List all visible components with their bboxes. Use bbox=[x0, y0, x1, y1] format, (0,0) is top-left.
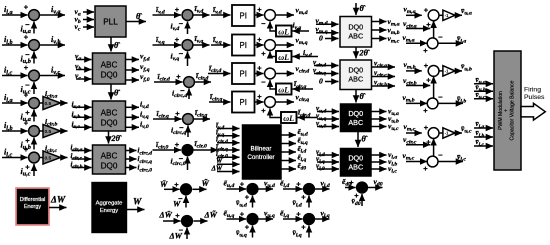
output v_l,a bbox=[371, 150, 397, 161]
svg-text:+: + bbox=[24, 32, 29, 41]
wires and labels around sum row cir,c bbox=[2, 145, 43, 178]
Aggregate Energy block bbox=[92, 183, 127, 233]
svg-text:0: 0 bbox=[319, 77, 323, 86]
svg-text:−: − bbox=[25, 50, 30, 59]
svg-text:-1: -1 bbox=[445, 69, 449, 74]
gain block 0.5 (cir,c) bbox=[43, 151, 61, 164]
PI block 1 bbox=[232, 5, 255, 26]
svg-text:W: W bbox=[173, 200, 181, 209]
svg-text:+: + bbox=[25, 108, 30, 117]
svg-text:DQ0: DQ0 bbox=[101, 119, 118, 128]
summing junction i_l,b + i_u,b bbox=[29, 126, 40, 137]
phase c: vertical split wire bbox=[433, 138, 435, 156]
input W̃ to Bilinear Controller bbox=[216, 157, 240, 165]
svg-text:+: + bbox=[426, 20, 431, 29]
DQ0-ABC block 1 (v_m) bbox=[340, 17, 372, 48]
phase b: lower output v-bar_l bbox=[438, 94, 466, 105]
svg-text:+: + bbox=[245, 222, 250, 231]
PI block 2 bbox=[232, 35, 255, 56]
error summing junction i_v,d error bbox=[182, 10, 193, 21]
PWM Modulation + Capacitor Voltage Balance block bbox=[494, 51, 521, 170]
output ẽ_l,q from Bilinear Controller bbox=[281, 153, 307, 163]
svg-text:Controller: Controller bbox=[247, 154, 274, 161]
combination sum v_l,q bbox=[304, 214, 315, 225]
Bilinear Controller block bbox=[243, 125, 282, 179]
phase a: v_m input to lower sum bbox=[403, 33, 428, 44]
wires and output label row3 cir d-axis bbox=[255, 64, 310, 87]
output v_u,b bbox=[371, 114, 399, 125]
input ΔW̃ to Bilinear Controller bbox=[211, 164, 240, 172]
summing junction after PI (row1 d-axis) bbox=[265, 10, 276, 21]
svg-text:+: + bbox=[24, 145, 29, 154]
phase a: upper summing junction bbox=[428, 10, 439, 21]
input 0 to DQ0-ABC 2 bbox=[319, 77, 339, 86]
svg-text:+: + bbox=[423, 106, 428, 115]
svg-text:−: − bbox=[438, 33, 443, 42]
svg-text:+: + bbox=[24, 63, 29, 72]
svg-text:PI: PI bbox=[240, 41, 247, 50]
wires and labels around Delta-W error sum bbox=[159, 210, 218, 240]
svg-text:+: + bbox=[301, 192, 306, 201]
svg-text:−: − bbox=[261, 78, 266, 87]
output v_f,0 bbox=[126, 72, 150, 83]
PWM input arrow v_l,b bbox=[474, 129, 493, 139]
svg-text:+: + bbox=[257, 64, 262, 73]
Delta-W output of Differential Energy bbox=[49, 196, 67, 208]
svg-text:+: + bbox=[261, 106, 266, 115]
output v_f,q bbox=[126, 62, 150, 73]
PLL input v_b bbox=[75, 14, 95, 25]
svg-text:ABC: ABC bbox=[101, 60, 118, 69]
PLL block bbox=[95, 6, 126, 37]
PWM input arrow v_u,c bbox=[474, 91, 493, 101]
svg-text:W̄: W̄ bbox=[160, 180, 168, 189]
input ĩ_v,q to Bilinear Controller bbox=[216, 129, 240, 139]
svg-text:+: + bbox=[424, 5, 429, 14]
phase b: v_m input to lower sum bbox=[403, 93, 428, 104]
svg-text:+: + bbox=[296, 180, 301, 189]
input v_l,0 bbox=[316, 162, 339, 172]
input i_cir,c to ABC-DQ0 3 bbox=[71, 152, 92, 162]
phase b: inverting gain triangle bbox=[439, 66, 455, 76]
svg-text:ABC: ABC bbox=[348, 163, 363, 172]
input to omega-L (row2 q-axis) bbox=[293, 48, 319, 59]
wires and labels around v_d0 bbox=[342, 177, 383, 207]
phase b: vertical split wire bbox=[433, 76, 435, 98]
svg-text:-1: -1 bbox=[445, 13, 449, 18]
wires and labels around i_cir,0 error bbox=[153, 139, 219, 170]
svg-text:+: + bbox=[257, 92, 262, 101]
svg-text:Aggregate: Aggregate bbox=[96, 201, 123, 207]
wires and labels around sum i_v,b bbox=[2, 32, 65, 65]
svg-text:PI: PI bbox=[240, 98, 247, 107]
svg-text:+: + bbox=[175, 35, 180, 44]
gain block 0.5 (cir,b) bbox=[43, 124, 61, 137]
ABC-DQ0 block 3 (circulating currents) bbox=[93, 145, 126, 174]
wires and labels around sum i_v,a bbox=[2, 2, 65, 35]
theta-hat into DQ0-ABC 1 bbox=[356, 3, 366, 15]
svg-text:ΔW: ΔW bbox=[169, 232, 183, 241]
PLL output theta-hat right bbox=[126, 12, 146, 22]
svg-text:+: + bbox=[349, 178, 354, 187]
input i_v,b to ABC-DQ0 2 bbox=[72, 109, 92, 120]
phase a: lower output v-bar_l bbox=[438, 34, 466, 45]
phase c: v_m input to lower sum bbox=[403, 151, 428, 162]
wires and labels around v_u,q bbox=[224, 209, 275, 239]
wires and output label row4 cir q-axis bbox=[255, 92, 310, 115]
input v_c to ABC-DQ0 1 bbox=[75, 71, 92, 82]
input v_u,d bbox=[316, 105, 339, 115]
phase c: upper summing junction bbox=[428, 128, 439, 139]
output v_u,c bbox=[371, 122, 399, 133]
error summing junction i_cir,q error bbox=[183, 114, 194, 125]
input v_cir,q to DQ0-ABC 2 bbox=[313, 67, 339, 77]
black DQ0-ABC block 2 (lower arm) bbox=[341, 149, 372, 177]
svg-text:Capacitor Voltage Balance: Capacitor Voltage Balance bbox=[509, 80, 515, 140]
phase a: upper output v-bar_u bbox=[455, 6, 472, 17]
Differential Energy block bbox=[16, 188, 49, 225]
svg-text:+: + bbox=[24, 90, 29, 99]
phase b: v_cir input bbox=[403, 76, 430, 87]
output v_cir,c bbox=[372, 69, 396, 79]
svg-text:+: + bbox=[257, 35, 262, 44]
gain block 0.5 (cir,a) bbox=[43, 96, 61, 109]
svg-text:+: + bbox=[25, 136, 30, 145]
error summing junction i_cir,0 error bbox=[182, 145, 193, 156]
Delta-W error summing junction bbox=[182, 216, 193, 227]
svg-text:+: + bbox=[25, 163, 30, 172]
combination sum v_d0 bbox=[357, 182, 368, 193]
svg-text:−: − bbox=[438, 151, 443, 160]
output arrow i_cir,c bbox=[45, 143, 68, 157]
svg-text:ABC: ABC bbox=[348, 32, 363, 41]
svg-text:+: + bbox=[24, 2, 29, 11]
svg-text:−: − bbox=[179, 49, 184, 58]
input to omega-L (row4 cir q-axis) bbox=[298, 108, 318, 119]
svg-text:DQ0: DQ0 bbox=[101, 71, 118, 80]
svg-text:+: + bbox=[354, 191, 359, 200]
wires and labels around i_v,d error bbox=[153, 4, 210, 34]
svg-text:+: + bbox=[261, 49, 266, 58]
wires and labels around sum i_v,c bbox=[2, 63, 65, 96]
input i_v,c to ABC-DQ0 2 bbox=[72, 119, 92, 130]
output i_v,d bbox=[126, 100, 149, 111]
svg-text:Energy: Energy bbox=[24, 204, 41, 210]
output arrow i_cir,b bbox=[45, 117, 68, 131]
summing junction i_l,c + i_u,c bbox=[29, 152, 40, 163]
output ẽ_u,d from Bilinear Controller bbox=[281, 128, 308, 138]
combination sum v_l,d bbox=[304, 184, 315, 195]
svg-text:+: + bbox=[175, 140, 180, 149]
summing junction i_l,b - i_u,b = i_v,b bbox=[29, 40, 40, 51]
input ĩ_cir,0 to Bilinear Controller bbox=[216, 150, 240, 160]
PWM input arrow v_u,b bbox=[474, 84, 493, 94]
ABC-DQ0 block 1 (voltages) bbox=[93, 53, 126, 84]
input to omega-L (row1 d-axis) bbox=[293, 21, 310, 32]
output v_f,d bbox=[126, 52, 150, 63]
output v_cir,a bbox=[372, 59, 396, 69]
input 0 to DQ0-ABC 1 bbox=[319, 34, 339, 43]
PLL output theta-hat down bbox=[111, 37, 120, 52]
input ĩ_cir,d to Bilinear Controller bbox=[216, 136, 240, 146]
svg-text:ωL: ωL bbox=[278, 85, 289, 94]
svg-text:−: − bbox=[438, 93, 443, 102]
svg-text:ΔW: ΔW bbox=[50, 196, 66, 206]
error summing junction i_v,q error bbox=[182, 40, 193, 51]
output v_u,a bbox=[371, 107, 399, 118]
svg-text:+: + bbox=[245, 192, 250, 201]
summing junction after PI (row3 cir d-axis) bbox=[265, 68, 276, 79]
svg-text:+: + bbox=[426, 76, 431, 85]
W error summing junction bbox=[181, 184, 192, 195]
svg-text:ωL: ωL bbox=[283, 114, 294, 123]
svg-text:−: − bbox=[261, 19, 266, 28]
svg-text:+: + bbox=[424, 61, 429, 70]
output ẽ_d0 from Bilinear Controller bbox=[281, 162, 306, 172]
svg-text:PI: PI bbox=[240, 12, 247, 21]
phase b: v_m input to upper sum bbox=[404, 60, 422, 71]
output i_circ,0 bbox=[126, 164, 152, 174]
output v_m,c bbox=[372, 34, 400, 45]
summing junction i_l,a - i_u,a = i_v,a bbox=[29, 10, 40, 21]
output i_circ,q bbox=[126, 155, 152, 165]
PLL input v_c bbox=[75, 22, 95, 33]
phase b: upper summing junction bbox=[428, 66, 439, 77]
phase a: inverting gain triangle bbox=[439, 10, 455, 20]
phase c: lower summing junction bbox=[427, 156, 438, 167]
PWM input arrow v_l,c bbox=[474, 138, 493, 148]
svg-text:ωL: ωL bbox=[278, 53, 289, 62]
wires and output label row1 d-axis bbox=[255, 5, 308, 28]
PWM input arrow v_u,a bbox=[474, 76, 493, 86]
svg-text:+: + bbox=[257, 5, 262, 14]
omega-L output into sum (row1 d-axis) bbox=[270, 21, 276, 31]
phase a: vertical split wire bbox=[433, 21, 435, 38]
wires and output label row2 q-axis bbox=[255, 35, 308, 58]
output v_l,c bbox=[371, 164, 397, 175]
svg-text:+: + bbox=[175, 109, 180, 118]
phase c: upper output v-bar_u bbox=[455, 124, 472, 135]
svg-text:ΔW̃: ΔW̃ bbox=[204, 210, 218, 219]
omega-L cross-coupling block (row2 q-axis) bbox=[276, 51, 292, 62]
summing junction after PI (row2 q-axis) bbox=[265, 40, 276, 51]
wires and labels around i_cir,q error bbox=[153, 108, 210, 137]
error summing junction i_cir,d error bbox=[184, 77, 195, 88]
svg-text:DQ0: DQ0 bbox=[348, 23, 363, 32]
output ẽ_l,d from Bilinear Controller bbox=[281, 145, 307, 155]
output ẽ_u,q from Bilinear Controller bbox=[281, 136, 308, 146]
input ĩ_v,d to Bilinear Controller bbox=[216, 121, 240, 131]
arrow into PI 1 with label bbox=[211, 5, 231, 16]
theta-hat into black DQ0-ABC 2 bbox=[358, 132, 368, 148]
input v_u,0 bbox=[316, 120, 339, 130]
wires and labels around i_cir,d error bbox=[154, 71, 211, 99]
svg-text:+: + bbox=[301, 222, 306, 231]
theta-hat arrow into block 2 bbox=[111, 84, 120, 100]
wires and labels around W error sum bbox=[160, 179, 210, 209]
PI block 3 bbox=[232, 63, 255, 84]
svg-text:-1: -1 bbox=[445, 131, 449, 136]
svg-text:ωL: ωL bbox=[278, 27, 289, 36]
input i_v,a to ABC-DQ0 2 bbox=[72, 99, 92, 110]
theta-hat into black DQ0-ABC 1 bbox=[356, 90, 366, 103]
svg-text:−: − bbox=[179, 19, 184, 28]
svg-text:+: + bbox=[423, 46, 428, 55]
svg-text:+: + bbox=[424, 123, 429, 132]
combination sum v_u,d bbox=[247, 184, 258, 195]
svg-text:−: − bbox=[25, 20, 30, 29]
phase c: v_m input to upper sum bbox=[404, 122, 422, 133]
omega-L output into sum (row2 q-axis) bbox=[270, 51, 276, 56]
output arrow i_cir,a bbox=[45, 89, 68, 103]
svg-text:0.5: 0.5 bbox=[45, 155, 52, 161]
wires and labels around i_v,q error bbox=[153, 34, 210, 66]
output i_v,0 bbox=[126, 120, 149, 131]
svg-text:ABC: ABC bbox=[348, 75, 363, 84]
input to omega-L (row3 cir d-axis) bbox=[293, 79, 314, 90]
black DQ0-ABC block 1 (upper arm) bbox=[341, 104, 372, 132]
svg-text:+: + bbox=[423, 164, 428, 173]
omega-L cross-coupling block (row3 cir d-axis) bbox=[276, 84, 292, 95]
svg-text:+: + bbox=[240, 210, 245, 219]
phase a: v_m input to upper sum bbox=[404, 4, 422, 15]
2theta-hat into DQ0-ABC 2 bbox=[356, 47, 370, 59]
svg-text:DQ0: DQ0 bbox=[348, 154, 363, 163]
svg-text:Energy: Energy bbox=[100, 208, 118, 214]
svg-text:+: + bbox=[176, 72, 181, 81]
svg-text:PLL: PLL bbox=[103, 18, 118, 27]
summing junction after PI (row4 cir q-axis) bbox=[265, 97, 276, 108]
svg-text:+: + bbox=[174, 180, 179, 189]
output i_circ,d bbox=[126, 147, 152, 157]
svg-text:Differential: Differential bbox=[20, 197, 46, 203]
svg-text:W̃: W̃ bbox=[202, 179, 210, 188]
phase a: v_cir input bbox=[403, 19, 430, 30]
svg-text:W: W bbox=[133, 198, 142, 208]
svg-text:Bilinear: Bilinear bbox=[251, 146, 272, 153]
input v_m,d to DQ0-ABC 1 bbox=[316, 16, 339, 27]
phase b: upper output v-bar_u bbox=[455, 62, 472, 73]
input i_cir,a to ABC-DQ0 3 bbox=[71, 144, 92, 154]
ABC-DQ0 block 2 (output currents) bbox=[93, 101, 126, 131]
output v_l,b bbox=[371, 157, 397, 168]
output v_cir,b bbox=[372, 78, 396, 88]
svg-text:+: + bbox=[175, 211, 180, 220]
output v_m,a bbox=[372, 17, 400, 28]
omega-L cross-coupling block (row1 d-axis) bbox=[276, 26, 292, 37]
svg-text:Pulses: Pulses bbox=[524, 94, 545, 101]
svg-text:0.5: 0.5 bbox=[45, 129, 52, 135]
wires and labels around v_l,d bbox=[280, 179, 330, 209]
Firing Pulses label bbox=[524, 87, 545, 102]
wires and labels around sum row cir,b bbox=[2, 118, 43, 151]
input ĩ_cir,q to Bilinear Controller bbox=[216, 143, 240, 153]
svg-text:ΔW̄: ΔW̄ bbox=[159, 210, 173, 219]
arrow into PI 4 with label bbox=[209, 92, 231, 103]
omega-L cross-coupling block (row4 cir q-axis) bbox=[281, 112, 297, 123]
input v_cir,d to DQ0-ABC 2 bbox=[313, 59, 339, 69]
svg-text:+: + bbox=[296, 210, 301, 219]
summing junction i_l,a + i_u,a bbox=[29, 98, 40, 109]
svg-text:+: + bbox=[240, 180, 245, 189]
input v_l,d bbox=[316, 148, 339, 158]
input v_a to ABC-DQ0 1 bbox=[75, 52, 92, 63]
input v_l,q bbox=[316, 155, 339, 165]
svg-text:PI: PI bbox=[240, 70, 247, 79]
svg-text:Firing: Firing bbox=[524, 87, 541, 94]
PI block 4 bbox=[232, 92, 255, 113]
2theta-hat arrow into block 3 bbox=[109, 131, 122, 144]
PWM input arrow v_l,a bbox=[474, 120, 493, 130]
summing junction i_l,c - i_u,c = i_v,c bbox=[29, 70, 40, 81]
combination sum v_u,q bbox=[247, 214, 258, 225]
W output of Aggregate Energy bbox=[127, 198, 145, 210]
svg-text:ABC: ABC bbox=[101, 151, 118, 160]
phase c: v_cir input bbox=[403, 135, 430, 146]
svg-text:ABC: ABC bbox=[348, 118, 363, 127]
phase a: lower summing junction bbox=[427, 38, 438, 49]
svg-text:+: + bbox=[175, 5, 180, 14]
svg-text:+: + bbox=[24, 118, 29, 127]
wires and labels around sum row cir,a bbox=[2, 90, 43, 123]
arrow into PI 2 with label bbox=[211, 35, 231, 46]
omega-L output into sum (row3 cir d-axis) bbox=[270, 80, 276, 89]
DQ0-ABC block 2 (v_cir) bbox=[340, 60, 372, 90]
wires and labels around v_u,d bbox=[224, 179, 275, 209]
svg-text:DQ0: DQ0 bbox=[348, 66, 363, 75]
phase c: lower output v-bar_l bbox=[438, 152, 466, 163]
input v_b to ABC-DQ0 1 bbox=[75, 62, 92, 73]
PLL input v_a bbox=[75, 7, 95, 18]
svg-text:DQ0: DQ0 bbox=[101, 162, 118, 171]
svg-text:0: 0 bbox=[319, 34, 323, 43]
firing pulses block arrow bbox=[521, 103, 545, 120]
input i_cir,b to ABC-DQ0 3 bbox=[71, 161, 92, 171]
svg-text:−: − bbox=[25, 81, 30, 90]
output i_v,q bbox=[126, 110, 149, 121]
output v_m,b bbox=[372, 25, 400, 36]
phase c: inverting gain triangle bbox=[439, 128, 455, 138]
svg-text:ABC: ABC bbox=[101, 108, 118, 117]
input v_u,q bbox=[316, 112, 339, 122]
input v_m,q to DQ0-ABC 1 bbox=[316, 25, 339, 36]
phase b: lower summing junction bbox=[427, 98, 438, 109]
arrow into PI 3 with label bbox=[208, 64, 231, 75]
svg-text:0.5: 0.5 bbox=[45, 101, 52, 107]
wires and labels around v_l,q bbox=[280, 209, 330, 239]
omega-L output into sum (row4 cir q-axis) bbox=[270, 108, 281, 117]
svg-text:DQ0: DQ0 bbox=[348, 109, 363, 118]
